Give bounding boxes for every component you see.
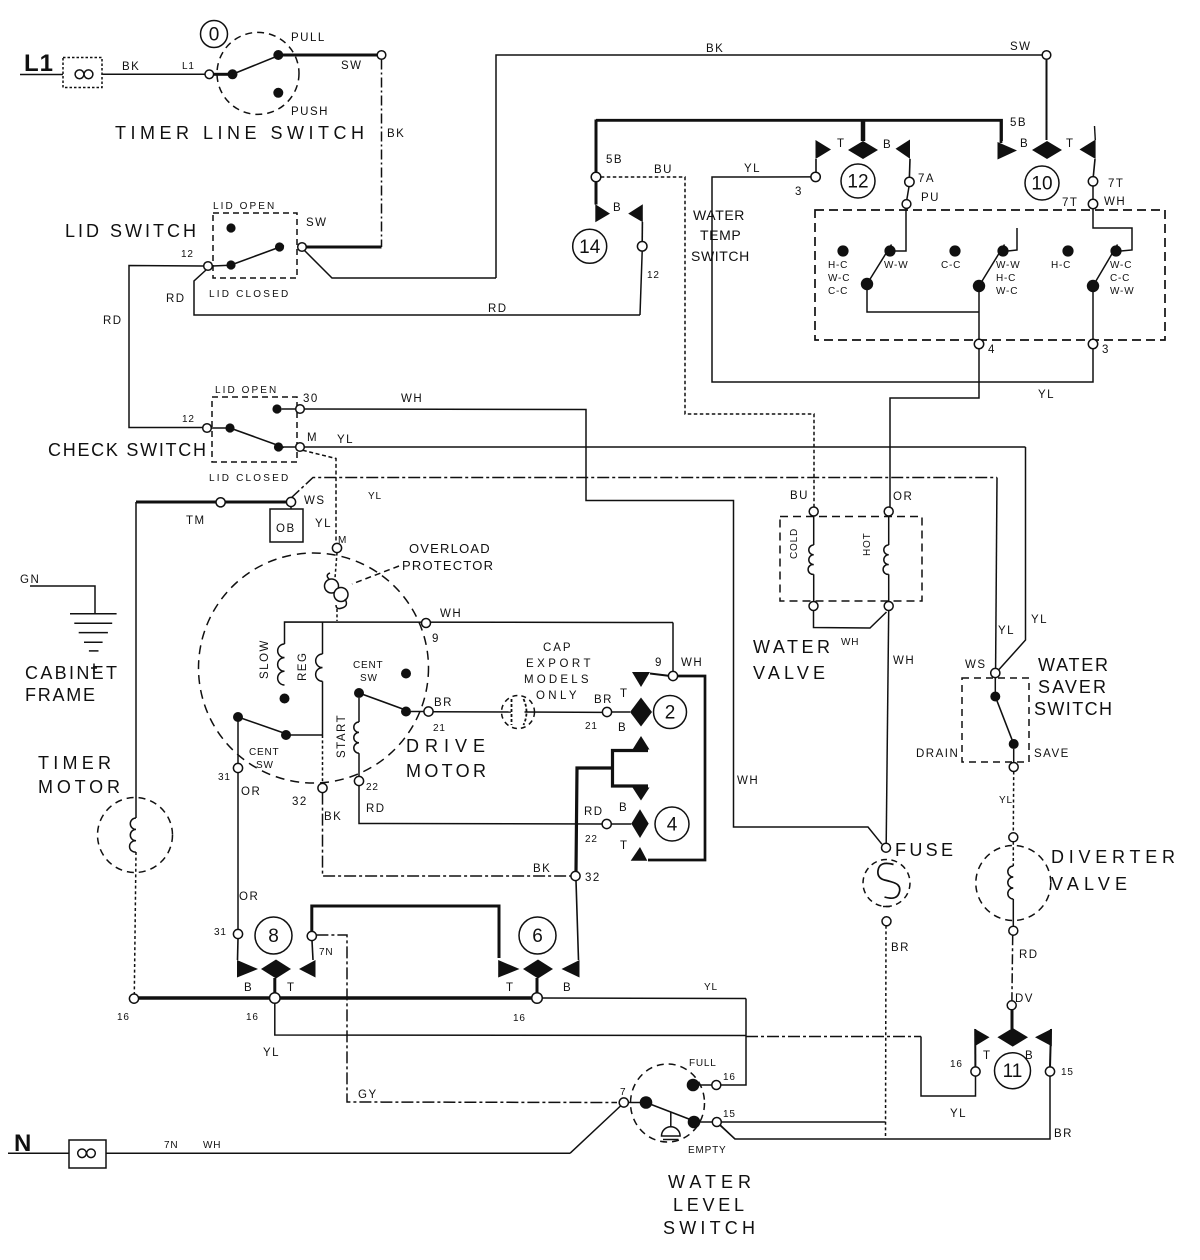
svg-text:WS: WS xyxy=(304,495,326,507)
svg-text:TIMER LINE SWITCH: TIMER LINE SWITCH xyxy=(115,123,368,143)
svg-text:WH: WH xyxy=(401,393,423,405)
timer switch 11 xyxy=(950,1010,1074,1089)
svg-text:OR: OR xyxy=(239,891,259,903)
svg-text:30: 30 xyxy=(303,393,319,405)
water level switch xyxy=(619,1058,759,1238)
svg-text:T: T xyxy=(287,982,296,994)
wire YL dash to switch 11 xyxy=(746,1037,976,1121)
svg-text:WATER: WATER xyxy=(753,637,834,657)
svg-text:PU: PU xyxy=(921,192,940,204)
winding START xyxy=(336,698,386,815)
contact M xyxy=(274,442,283,451)
node N xyxy=(8,1130,69,1157)
pivot xyxy=(233,712,243,722)
wire YL from M to water saver riser xyxy=(304,434,1025,447)
contact PUSH xyxy=(273,88,283,98)
svg-text:LID SWITCH: LID SWITCH xyxy=(65,221,200,241)
terminal TM xyxy=(216,498,225,507)
terminal 31 lower xyxy=(233,929,242,938)
timer motor xyxy=(38,502,173,994)
label CAP EXPORT MODELS ONLY xyxy=(524,642,592,702)
svg-text:9: 9 xyxy=(432,633,440,645)
wire OR terminal 4 to water valve xyxy=(890,349,979,507)
svg-text:YL: YL xyxy=(704,982,718,993)
cam diamond xyxy=(612,711,630,713)
contact H-C xyxy=(1062,245,1073,256)
svg-text:12: 12 xyxy=(182,414,195,425)
terminal 31 xyxy=(233,763,242,772)
svg-text:BR: BR xyxy=(891,942,910,954)
svg-text:SW: SW xyxy=(1010,41,1032,53)
cam diamond xyxy=(611,823,631,825)
svg-text:H-C: H-C xyxy=(828,260,848,271)
wire motor top bus xyxy=(285,622,674,644)
svg-text:OVERLOAD: OVERLOAD xyxy=(409,541,491,556)
wire YL water saver to diverter xyxy=(999,772,1014,833)
wire pivot1 to t4 riser xyxy=(867,289,979,312)
wire YL riser M to WS xyxy=(999,447,1048,670)
svg-text:FRAME: FRAME xyxy=(25,685,99,705)
svg-text:8: 8 xyxy=(268,926,279,947)
cam diamond xyxy=(523,960,553,979)
pivot xyxy=(354,688,364,698)
svg-text:BK: BK xyxy=(387,128,405,140)
wire 7T drop left xyxy=(1008,228,1017,251)
cam diamond xyxy=(261,960,291,979)
wire 15 diagonal xyxy=(720,1125,735,1139)
pivot xyxy=(1087,280,1099,292)
pivot xyxy=(973,280,985,292)
svg-text:3: 3 xyxy=(1102,344,1110,356)
svg-text:RD: RD xyxy=(103,315,123,327)
box OB xyxy=(270,507,332,542)
svg-text:YL: YL xyxy=(744,163,761,175)
water temp switch section 1 xyxy=(828,208,979,312)
wire BR 21 to capacitor xyxy=(433,711,511,713)
water valve xyxy=(753,507,922,683)
svg-text:T: T xyxy=(620,840,629,852)
wire RD motor 22 to switch 4 xyxy=(359,786,602,824)
contact PULL xyxy=(273,50,283,60)
wire riser x496 up to top BK line xyxy=(496,55,1042,278)
svg-text:WH: WH xyxy=(737,775,759,787)
svg-text:15: 15 xyxy=(1061,1067,1074,1078)
svg-text:RD: RD xyxy=(488,303,508,315)
svg-text:BK: BK xyxy=(122,61,140,73)
bus 16 thick xyxy=(117,993,542,1024)
svg-text:DRIVE: DRIVE xyxy=(406,736,489,756)
svg-text:32: 32 xyxy=(292,796,308,808)
winding REG xyxy=(297,623,323,736)
terminal 16 left xyxy=(129,994,138,1003)
wire 9 to switch 2 xyxy=(655,623,703,681)
overload protector xyxy=(325,553,349,621)
wire M down to motor M terminal xyxy=(303,450,347,546)
diaphragm xyxy=(670,1112,672,1128)
svg-text:7N: 7N xyxy=(164,1140,178,1151)
svg-text:BK: BK xyxy=(706,43,724,55)
terminal 9 xyxy=(422,608,463,645)
wire RD lid 12 to check 12 xyxy=(103,266,204,428)
svg-text:WH: WH xyxy=(440,608,462,620)
terminal 7A xyxy=(905,177,914,186)
terminal 3 xyxy=(811,172,820,181)
svg-text:16: 16 xyxy=(950,1059,963,1070)
moving contact xyxy=(275,242,284,251)
svg-text:EMPTY: EMPTY xyxy=(688,1145,726,1156)
svg-text:BR: BR xyxy=(434,697,453,709)
svg-text:LEVEL: LEVEL xyxy=(673,1195,748,1215)
wire to bus 16 xyxy=(134,852,136,994)
contact C-C xyxy=(949,245,960,256)
wire YL from terminal 3 to water temp terminal 3 xyxy=(712,163,1093,401)
wire WH from 30 to fuse xyxy=(304,393,882,844)
svg-text:PULL: PULL xyxy=(291,32,326,44)
svg-text:9: 9 xyxy=(655,657,663,669)
contact W-W/H-C/W-C xyxy=(997,245,1008,256)
wire RD from lid 12 down to long RD run xyxy=(166,251,642,315)
terminal SW xyxy=(377,51,386,60)
wire from lid SW down-right then to x496 riser xyxy=(305,41,1043,278)
water temp switch box xyxy=(691,207,1165,340)
open contact xyxy=(401,669,411,679)
timer switch 4 xyxy=(584,788,689,861)
svg-text:BU: BU xyxy=(790,490,809,502)
svg-text:15: 15 xyxy=(723,1109,736,1120)
svg-text:7T: 7T xyxy=(1108,178,1124,190)
svg-text:LID CLOSED: LID CLOSED xyxy=(209,289,289,300)
contact W-W xyxy=(884,245,895,256)
terminal L1 xyxy=(205,70,214,79)
svg-text:H-C: H-C xyxy=(1051,260,1071,271)
svg-text:CAP: CAP xyxy=(543,642,572,654)
svg-text:SWITCH: SWITCH xyxy=(663,1218,759,1238)
wire BK down from SW to lid switch xyxy=(382,60,406,248)
svg-text:16: 16 xyxy=(246,1012,259,1023)
wire pivot to 31 xyxy=(237,717,239,763)
wire thick right side 9 to bottom flag 4 xyxy=(648,676,705,860)
svg-text:GN: GN xyxy=(20,574,40,586)
wire WH jumper xyxy=(814,611,887,629)
pivot contact xyxy=(228,69,238,79)
svg-text:21: 21 xyxy=(585,721,598,732)
wire to SW terminal xyxy=(283,54,378,57)
svg-text:CHECK SWITCH: CHECK SWITCH xyxy=(48,440,210,460)
connector L1 plug xyxy=(63,58,102,88)
wire RD diverter to DV xyxy=(1007,935,1038,1010)
node 32 xyxy=(533,863,601,884)
svg-text:WS: WS xyxy=(965,659,987,671)
svg-text:YL: YL xyxy=(999,795,1013,806)
svg-text:COLD: COLD xyxy=(789,528,800,559)
svg-text:WATER: WATER xyxy=(693,207,745,223)
wire YL long run from WS to water saver xyxy=(291,478,998,503)
svg-text:16: 16 xyxy=(513,1013,526,1024)
wire riser to switch 14 terminal 12 xyxy=(640,251,642,315)
svg-text:BU: BU xyxy=(654,164,673,176)
stem from SW xyxy=(1046,60,1048,141)
wire 7T feed xyxy=(1093,209,1132,251)
svg-text:C-C: C-C xyxy=(1110,273,1130,284)
svg-text:7: 7 xyxy=(620,1087,626,1098)
svg-text:WH: WH xyxy=(203,1140,221,1151)
svg-text:31: 31 xyxy=(214,927,227,938)
terminal 12 xyxy=(637,242,647,252)
svg-text:EXPORT: EXPORT xyxy=(526,658,592,670)
terminal 4 xyxy=(974,339,983,348)
svg-text:10: 10 xyxy=(1031,174,1052,195)
svg-text:DIVERTER: DIVERTER xyxy=(1051,847,1179,867)
wire thick jumper 2-4 xyxy=(613,751,649,787)
svg-text:YL: YL xyxy=(368,491,382,502)
svg-text:YL: YL xyxy=(998,625,1015,637)
svg-text:L1: L1 xyxy=(24,50,54,77)
terminal 30 xyxy=(296,405,305,414)
capacitor cap xyxy=(502,696,535,729)
terminal 7N xyxy=(307,931,316,940)
svg-text:16: 16 xyxy=(723,1072,736,1083)
cam diamond xyxy=(997,1028,1028,1047)
water temp switch section 2 xyxy=(941,228,1020,356)
svg-text:21: 21 xyxy=(433,723,446,734)
water temp switch section 3 xyxy=(1051,209,1134,356)
winding SLOW xyxy=(259,639,290,703)
svg-text:OB: OB xyxy=(276,523,296,535)
terminal 7T WH xyxy=(1092,186,1094,200)
svg-text:BR: BR xyxy=(594,694,613,706)
svg-text:FUSE: FUSE xyxy=(895,840,957,860)
terminal hot bottom xyxy=(884,602,893,611)
contact EMPTY xyxy=(688,1116,701,1129)
svg-text:B: B xyxy=(613,202,622,214)
svg-text:T: T xyxy=(837,138,846,150)
wire thick 7N up over to switch 6 xyxy=(312,906,499,958)
terminal 9 WH xyxy=(668,671,677,680)
wire PU to W-W xyxy=(895,208,906,251)
contact FULL xyxy=(687,1079,700,1092)
terminal 16 xyxy=(712,1081,721,1090)
svg-text:4: 4 xyxy=(988,344,996,356)
svg-text:SW: SW xyxy=(360,673,378,684)
staff from 32 node xyxy=(576,881,579,960)
svg-text:GY: GY xyxy=(358,1089,378,1101)
contact lid open xyxy=(226,223,235,232)
wire pivot2 down to terminal 4 xyxy=(978,291,980,339)
timer switch 12 xyxy=(795,120,940,208)
blade xyxy=(238,717,291,736)
wire BU from 5B to water valve xyxy=(601,164,814,507)
terminal SW top right xyxy=(1042,51,1051,60)
wire TM thick xyxy=(136,495,326,527)
terminal 32 xyxy=(318,783,327,792)
svg-text:SLOW: SLOW xyxy=(259,639,271,679)
terminal 15 xyxy=(712,1118,721,1127)
svg-text:OR: OR xyxy=(893,491,913,503)
terminal 21 xyxy=(602,707,611,716)
svg-text:12: 12 xyxy=(647,270,660,281)
wire 32 from REG bottom xyxy=(292,735,327,808)
check switch xyxy=(48,385,319,484)
terminal 22 xyxy=(602,819,611,828)
svg-text:B: B xyxy=(1025,1050,1034,1062)
coil xyxy=(130,818,136,852)
contact xyxy=(281,730,291,740)
drive motor dashed circle xyxy=(199,553,429,783)
terminal WS xyxy=(991,668,1000,677)
terminal 16 xyxy=(971,1067,980,1076)
terminal PU xyxy=(907,187,909,200)
blade xyxy=(646,1103,698,1123)
terminal 7T xyxy=(1088,177,1097,186)
svg-text:DV: DV xyxy=(1015,993,1034,1005)
wire pivot3 down to terminal 3 xyxy=(1092,291,1094,339)
svg-text:SW: SW xyxy=(341,60,363,72)
svg-text:CENT: CENT xyxy=(353,660,383,671)
svg-text:WH: WH xyxy=(893,655,915,667)
svg-text:W-C: W-C xyxy=(828,273,850,284)
lid switch xyxy=(65,201,382,300)
svg-text:YL: YL xyxy=(337,434,354,446)
svg-text:BR: BR xyxy=(1054,1128,1073,1140)
node 16 under switch 6 xyxy=(532,993,543,1004)
pivot contact xyxy=(994,678,996,692)
wire BK from plug to timer line switch xyxy=(103,61,205,74)
blade xyxy=(979,245,1005,287)
svg-text:FULL: FULL xyxy=(689,1058,717,1069)
wire xyxy=(20,74,63,76)
svg-text:T: T xyxy=(620,688,629,700)
svg-text:W-C: W-C xyxy=(1110,260,1132,271)
left flag T xyxy=(498,960,519,978)
svg-text:22: 22 xyxy=(366,782,379,793)
svg-text:MOTOR: MOTOR xyxy=(38,777,124,797)
diverter valve xyxy=(976,833,1179,935)
timer switch 2 xyxy=(602,672,686,750)
svg-text:T: T xyxy=(983,1050,992,1062)
svg-text:C-C: C-C xyxy=(941,260,961,271)
svg-text:WATER: WATER xyxy=(668,1172,755,1192)
svg-text:LID OPEN: LID OPEN xyxy=(215,385,277,396)
svg-text:SW: SW xyxy=(306,217,328,229)
svg-text:YL: YL xyxy=(1031,614,1048,626)
svg-text:WATER: WATER xyxy=(1038,655,1112,675)
svg-text:32: 32 xyxy=(585,872,601,884)
svg-text:4: 4 xyxy=(667,815,678,836)
blade xyxy=(359,693,411,712)
svg-text:W-W: W-W xyxy=(884,260,908,271)
svg-text:HOT: HOT xyxy=(862,532,873,556)
wire 5B stem up to bus xyxy=(595,120,598,173)
svg-text:2: 2 xyxy=(665,703,676,724)
terminal M xyxy=(296,443,305,452)
svg-text:11: 11 xyxy=(1003,1061,1023,1082)
label DRIVE MOTOR xyxy=(406,736,490,781)
blade xyxy=(231,246,284,266)
wire TM down xyxy=(135,502,137,818)
svg-text:B: B xyxy=(618,722,627,734)
svg-text:LID OPEN: LID OPEN xyxy=(213,201,275,212)
svg-text:ONLY: ONLY xyxy=(536,690,578,702)
wire YL riser to WS xyxy=(996,478,1015,669)
coil xyxy=(1012,842,1014,866)
svg-text:SWITCH: SWITCH xyxy=(1034,699,1116,719)
svg-text:OR: OR xyxy=(241,786,261,798)
connector N plug xyxy=(69,1140,106,1168)
svg-text:W-W: W-W xyxy=(1110,286,1134,297)
wire WH valve to fuse xyxy=(886,611,915,844)
timer switch 14 xyxy=(573,182,660,281)
svg-text:31: 31 xyxy=(218,772,231,783)
svg-text:PROTECTOR: PROTECTOR xyxy=(402,558,494,573)
label OVERLOAD PROTECTOR xyxy=(352,541,494,584)
svg-text:C-C: C-C xyxy=(828,286,848,297)
svg-text:TM: TM xyxy=(186,515,206,527)
svg-text:YL: YL xyxy=(315,518,332,530)
pivot xyxy=(640,1096,653,1109)
terminal 7 xyxy=(619,1098,628,1107)
wire BR fuse down to water level switch xyxy=(721,926,886,1139)
svg-text:LID CLOSED: LID CLOSED xyxy=(209,473,289,484)
blade xyxy=(1093,245,1118,287)
wire OR from 31 down xyxy=(214,773,261,939)
svg-text:YL: YL xyxy=(1038,389,1055,401)
contact 30 xyxy=(272,404,281,413)
svg-text:0: 0 xyxy=(209,25,220,46)
svg-text:B: B xyxy=(619,802,628,814)
stem xyxy=(861,120,866,141)
svg-text:YL: YL xyxy=(263,1047,280,1059)
svg-text:DRAIN: DRAIN xyxy=(916,748,959,760)
svg-text:6: 6 xyxy=(532,926,543,947)
left flag T xyxy=(816,140,832,159)
svg-text:L1: L1 xyxy=(182,61,195,72)
ground GN cabinet frame xyxy=(20,574,121,705)
svg-text:SW: SW xyxy=(256,760,274,771)
svg-text:W-W: W-W xyxy=(996,260,1020,271)
timer line switch xyxy=(201,21,386,119)
svg-text:WH: WH xyxy=(681,657,703,669)
terminal 3 xyxy=(1088,339,1097,348)
wire BK motor 32 to node 32 xyxy=(323,793,571,876)
terminal 21 xyxy=(424,707,433,716)
pivot xyxy=(225,423,234,432)
svg-text:M: M xyxy=(307,432,318,444)
timer switch 6 xyxy=(498,881,579,995)
terminal SW xyxy=(298,243,307,252)
switch blade xyxy=(233,55,281,74)
svg-text:PUSH: PUSH xyxy=(291,106,329,118)
contact H-C xyxy=(837,245,848,256)
blade xyxy=(230,428,284,448)
svg-text:MODELS: MODELS xyxy=(524,674,590,686)
svg-text:12: 12 xyxy=(181,249,194,260)
blade xyxy=(995,697,1013,745)
svg-text:CENT: CENT xyxy=(249,747,279,758)
wire thick bus 5B xyxy=(596,120,1002,141)
svg-text:5B: 5B xyxy=(1010,117,1027,129)
svg-text:REG: REG xyxy=(297,652,309,681)
terminal cold bottom xyxy=(809,602,818,611)
wire BR switch 11 to water level xyxy=(720,1076,1073,1140)
wire SW thick to BK vertical xyxy=(306,246,381,249)
svg-text:H-C: H-C xyxy=(996,273,1016,284)
wire GY xyxy=(316,935,617,1103)
svg-text:SAVER: SAVER xyxy=(1038,677,1110,697)
svg-text:B: B xyxy=(244,982,253,994)
node 16 under switch 8 xyxy=(270,993,281,1004)
contact slow end xyxy=(280,694,290,704)
moving contact xyxy=(401,707,411,717)
